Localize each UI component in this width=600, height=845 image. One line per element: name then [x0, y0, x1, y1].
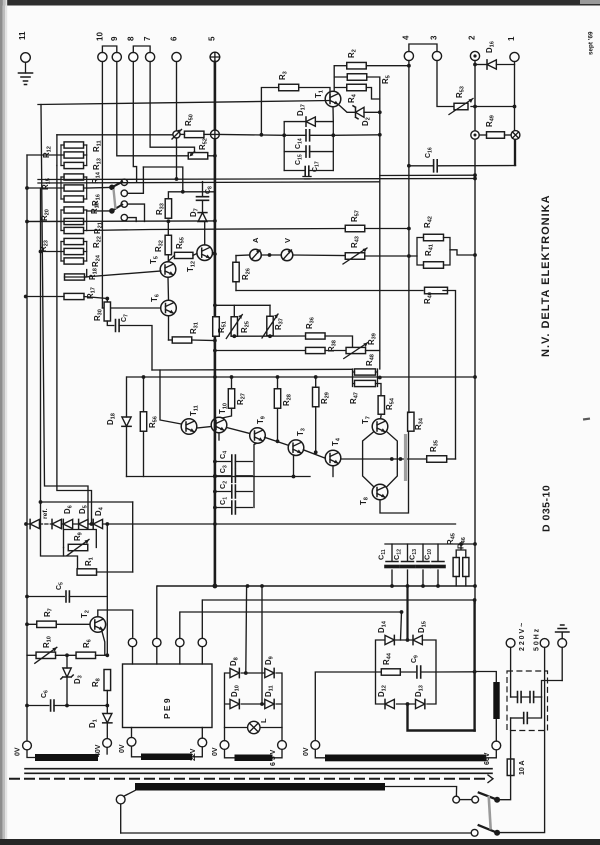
wire terminal 4 drop — [408, 61, 410, 413]
meter A — [250, 249, 262, 261]
wire D16 right — [496, 64, 514, 66]
node C2-bus — [213, 490, 217, 494]
wire chassis line 2 — [25, 772, 492, 774]
wire T5-T6 link — [167, 277, 170, 300]
wire R25 arrow — [226, 315, 242, 339]
resistor R45 — [453, 558, 459, 577]
wire PE9 risers — [157, 586, 203, 638]
svg-text:L: L — [259, 718, 268, 723]
svg-text:10: 10 — [95, 32, 104, 41]
node y476-bus — [213, 475, 217, 479]
wire PE9 terminal stub x156.8 — [156, 647, 158, 664]
node tap4-busB — [39, 250, 43, 254]
wire R10-D3 — [56, 654, 77, 656]
wire T7/T8 loop — [363, 432, 398, 488]
resistor R33 — [165, 199, 171, 219]
wire mains E drop — [561, 647, 563, 680]
node b1r2-y586 — [260, 584, 264, 588]
wire terminal 9 drop — [117, 62, 189, 156]
wire x391 col — [401, 612, 402, 640]
ground (terminal 11) — [19, 73, 33, 85]
wire R36 right — [325, 336, 353, 351]
wire chain links — [61, 523, 93, 525]
resistor R11 — [64, 152, 84, 158]
wire C14 rail — [284, 134, 333, 136]
wire R12 leads — [61, 144, 87, 146]
transformer winding 66V (bar) — [325, 755, 486, 762]
node R28-y377 — [276, 375, 280, 379]
diode D5 — [79, 519, 88, 528]
node bus-T12 — [213, 252, 217, 256]
resistor R54 — [378, 396, 384, 415]
node R30 top — [105, 297, 109, 301]
wire R41 box to t2bus — [450, 250, 475, 255]
resistor R29 — [313, 387, 319, 407]
wire loop mid rail — [363, 458, 427, 460]
wire tap group3 — [27, 221, 61, 223]
wire R32-R55 — [168, 255, 174, 261]
wire 66V to vbar — [495, 719, 497, 741]
svg-text:1: 1 — [507, 36, 516, 41]
wire R2-R5-R4 stubs — [334, 65, 347, 67]
svg-text:sept ’69: sept ’69 — [588, 31, 595, 55]
svg-text:66V: 66V — [484, 752, 491, 765]
fuse 10A — [507, 759, 514, 776]
node R27-y377 — [230, 375, 234, 379]
wire R43 arrow — [343, 248, 367, 264]
wire left bus B — [41, 188, 64, 556]
wire chassis line 1 — [25, 768, 492, 770]
wire bridge1 riser 2 — [261, 586, 263, 704]
wire 0V2 to bar — [132, 746, 142, 757]
resistor R27 — [228, 389, 234, 409]
node R48-R5line — [378, 376, 382, 380]
wire R9 arrow — [67, 540, 89, 556]
wire x475 thick — [473, 600, 475, 731]
resistor R49 — [487, 132, 505, 139]
node R17-busA — [24, 295, 28, 299]
mains terminal A — [506, 639, 515, 648]
node R45-y544 — [459, 542, 463, 546]
wire R25 top — [233, 305, 235, 316]
wire T2 emitter — [102, 631, 105, 656]
wire C13 column — [422, 544, 424, 586]
switch contact 1 — [121, 179, 127, 185]
capacitor C7 — [116, 320, 120, 332]
node R41-t2 — [473, 253, 477, 257]
wire PE9 gnd stub — [131, 728, 133, 738]
wire C10 column — [437, 544, 439, 586]
resistor R21 — [64, 227, 84, 233]
node ref junction left — [471, 131, 479, 139]
wire screen line (dashed) — [10, 778, 488, 780]
wire mains cap rail — [511, 696, 518, 698]
node bus-y305 — [213, 303, 217, 307]
node wiper R50 — [173, 131, 180, 138]
wire T6 emitter — [168, 316, 170, 340]
node R43-t4 — [407, 254, 411, 258]
wire 66V to bar — [486, 750, 496, 758]
wire 63V to bar — [273, 749, 283, 757]
wire R28 top — [277, 377, 279, 389]
capacitor C15 — [306, 146, 310, 157]
wire R17 rail — [26, 296, 64, 298]
wire terminal 3 drop — [437, 61, 455, 107]
switch S2b — [494, 830, 500, 836]
PE9 top terminal x179.8 — [176, 638, 184, 646]
capacitor C16 — [434, 160, 438, 172]
svg-text:N.V. DELTA ELEKTRONIKA: N.V. DELTA ELEKTRONIKA — [540, 194, 552, 357]
wire bridge2 rail left — [315, 672, 375, 741]
resistor R23 — [64, 238, 84, 244]
wire R54-T7 — [380, 414, 383, 419]
svg-text:6: 6 — [170, 36, 179, 41]
wire R13 leads — [61, 165, 87, 167]
switch contact 3 — [121, 201, 127, 207]
wire T11-T10 link — [197, 427, 211, 429]
wire C11 column — [391, 544, 393, 586]
wire R31 right — [192, 339, 215, 342]
resistor R20 — [64, 207, 84, 213]
diode D16 — [487, 60, 496, 69]
wire C4 row — [215, 461, 252, 463]
wire C12 column — [407, 544, 409, 586]
diode D17 — [306, 117, 315, 126]
terminal 4 — [404, 51, 413, 60]
wire rail y305 — [215, 304, 270, 306]
resistor R5 — [347, 74, 367, 81]
wire R11 leads — [61, 154, 87, 156]
svg-text:0V: 0V — [119, 744, 126, 753]
wire R41/R42 bracket — [417, 238, 450, 266]
diode D7 — [198, 213, 207, 222]
wire link 10-9 — [102, 46, 116, 52]
diode D9 — [265, 668, 274, 677]
wire bottom left terminal col — [120, 804, 122, 833]
wire R6 right — [96, 654, 108, 656]
wire long rail y524 — [103, 523, 456, 525]
node R25-bot — [232, 334, 236, 338]
wire rail C14 to R5-line — [333, 134, 380, 137]
node y705-x107 — [105, 704, 109, 708]
resistor R56 — [140, 412, 146, 432]
wire R53 arrow — [449, 99, 473, 115]
node y524-busA — [24, 522, 28, 526]
wire tap group2 — [27, 187, 61, 189]
wire T8 bottom loop — [380, 431, 409, 513]
switch contact S2b — [471, 829, 478, 836]
node bridge1-top — [244, 671, 248, 675]
resistor R40 — [425, 287, 448, 294]
terminal 2 — [470, 51, 479, 60]
diode D8 — [230, 668, 239, 677]
node x475-y672 — [473, 670, 477, 674]
transistor T4 — [325, 450, 341, 466]
wire rail y612 — [181, 611, 402, 613]
wire R3 right — [299, 88, 330, 100]
wire R2 right — [366, 65, 409, 67]
PE9 top terminal x202.3 — [198, 638, 206, 646]
wire R21 leads — [61, 230, 87, 232]
wire R49 left — [479, 134, 486, 136]
resistor R30 — [104, 302, 110, 321]
wire R26 bottom — [235, 282, 237, 291]
wire rail y544 — [385, 543, 475, 545]
wire PE9 terminal stub x202.3 — [201, 647, 203, 664]
wire x132 col — [132, 502, 134, 572]
wire R32 top — [167, 221, 169, 235]
wire tap group1 — [27, 154, 61, 156]
wire R25 bot stub — [233, 335, 235, 337]
wire R56 col — [143, 377, 145, 412]
switch link S2 — [489, 796, 491, 830]
wire R18 to T5 — [85, 271, 161, 277]
wire R2/R5/R4 left rail — [333, 66, 335, 92]
wire S2a contacts link — [460, 799, 472, 801]
wire 0V3 to bar — [225, 749, 235, 757]
node tap2-busA — [25, 186, 29, 190]
node T3-y476 — [292, 475, 296, 479]
node loop-d2 — [399, 457, 403, 461]
svg-text:10 A: 10 A — [519, 760, 526, 775]
wire bottom terminal to bar — [124, 791, 135, 797]
wire T10 em — [218, 433, 220, 440]
node loop-d1 — [390, 457, 394, 461]
wire R39 arrow — [344, 343, 368, 359]
wire R43 right — [365, 255, 417, 257]
terminal 22V — [198, 738, 207, 747]
node R29-T3T4 — [314, 450, 318, 454]
svg-text:ref.: ref. — [42, 508, 49, 519]
wire R31 left — [169, 339, 173, 341]
wire meter rail — [236, 254, 250, 257]
terminal 8 — [129, 52, 138, 61]
node bridge2-top — [406, 638, 410, 642]
svg-text:5 0 H z: 5 0 H z — [534, 628, 541, 651]
svg-text:3: 3 — [430, 35, 439, 40]
lamp L — [248, 721, 260, 733]
resistor R50 — [184, 131, 204, 138]
switch contact 4 — [121, 214, 127, 220]
terminal 9 — [112, 52, 121, 61]
transistor T9 — [250, 428, 266, 444]
terminal 0V-1 — [23, 741, 32, 750]
wire R28 to T9 — [277, 408, 279, 441]
mains terminal B — [540, 639, 549, 648]
resistor R55 — [174, 252, 193, 258]
wire rail y600 — [203, 599, 475, 601]
switch link — [114, 189, 116, 209]
wire R53 right — [471, 106, 515, 108]
wire contact4 lead — [128, 218, 137, 222]
node y705-D3 — [65, 704, 69, 708]
wire rail y336 — [234, 335, 305, 337]
resistor R38 — [306, 347, 326, 353]
capacitor C8 — [197, 197, 209, 201]
diode D15 — [413, 635, 422, 644]
resistor R26 — [233, 262, 239, 282]
PE9 top terminal x156.8 — [153, 638, 161, 646]
resistor R9 — [68, 544, 88, 550]
wire C15 rail — [284, 151, 333, 153]
resistor R46 — [463, 558, 469, 577]
switch contact S2a-2 — [453, 796, 460, 803]
node y624-busA — [25, 622, 29, 626]
wire R48 bracket — [353, 369, 378, 387]
node y524-D4 — [90, 522, 94, 526]
diode D10 — [230, 699, 239, 708]
node C14-left — [282, 133, 286, 137]
resistor R48b — [355, 380, 376, 386]
capacitor C3 — [232, 469, 236, 482]
resistor R18 — [65, 274, 85, 280]
diode Dx — [52, 519, 61, 528]
wire R1 right — [97, 571, 133, 573]
wire rail y624 — [27, 623, 90, 625]
node y596-x27 — [25, 595, 29, 599]
wire terminal 5 bus — [214, 62, 217, 586]
node C10-y586 — [436, 584, 440, 588]
node R53-t2 — [473, 105, 477, 109]
switch pole S1b — [109, 208, 115, 214]
resistor R16 — [64, 196, 84, 202]
resistor R19 — [64, 218, 84, 224]
wire rail y350 — [215, 350, 306, 352]
wire terminal 10 drop — [101, 62, 103, 308]
wire D3 col b — [66, 677, 68, 706]
wire rail y705b — [54, 705, 107, 707]
node bus junction at R50 — [211, 130, 220, 139]
diode D13 — [416, 699, 425, 708]
wire terminal 8 drop — [133, 62, 136, 183]
resistor R3 — [279, 84, 299, 91]
resistor R48a — [355, 369, 376, 375]
resistor R52 — [188, 153, 208, 160]
wire fuse to switch — [500, 776, 511, 800]
wire R27 top — [231, 377, 233, 389]
wire C1 row — [215, 507, 252, 509]
wire rail y596b — [69, 596, 107, 598]
wire bridge1 right drop — [281, 728, 283, 741]
wire R34 top — [409, 411, 411, 413]
switch contact 2 — [121, 190, 127, 196]
wire rail y290 — [236, 290, 423, 292]
node R56-y377 — [142, 375, 146, 379]
svg-text:11: 11 — [18, 31, 27, 40]
transistor T3 — [288, 440, 304, 456]
node C1-bus — [213, 506, 217, 510]
terminal 0V-3 — [220, 741, 229, 750]
transistor T7 — [372, 419, 388, 435]
wire rail y705 — [27, 705, 49, 707]
diode D1 — [103, 714, 112, 723]
resistor R22 — [64, 248, 84, 254]
wire T4 out — [341, 458, 363, 460]
transformer winding 40V (bar) — [35, 754, 98, 761]
transistor T10 — [211, 417, 227, 433]
node y502-busB — [39, 500, 43, 504]
wire mains cap rail up — [542, 681, 563, 698]
wire PE9 terminal stub x179.8 — [179, 647, 181, 664]
wire ladder inner box top — [57, 134, 177, 136]
node bus-R31 — [213, 339, 217, 343]
capacitor C9 — [417, 666, 421, 678]
resistor R24 — [64, 258, 84, 264]
resistor R31 — [172, 337, 192, 343]
wire box top edges — [284, 121, 333, 123]
node y655-D3 — [65, 653, 69, 657]
resistor R43 — [345, 253, 365, 260]
wire R39 right — [366, 350, 380, 352]
wire C8 top stub — [202, 182, 204, 197]
wire R48 to R54 — [378, 384, 382, 397]
node D7-bus — [213, 219, 217, 223]
node R2-t4 — [407, 64, 411, 68]
wire R57 rail — [87, 229, 346, 231]
IC PE 9 (box) — [123, 664, 213, 728]
resistor R12 — [64, 142, 84, 148]
resistor R4 — [347, 84, 367, 91]
node C14-right — [331, 133, 335, 137]
resistor R51 — [213, 317, 220, 337]
wire R10 arrow — [35, 647, 57, 663]
resistor R39 — [346, 347, 366, 353]
wire R29 to T3 — [315, 407, 317, 453]
wire rail y476 — [127, 476, 311, 478]
node t2-D16 — [473, 63, 477, 67]
transistor T5 — [160, 262, 176, 278]
wire T10-T9 — [227, 428, 250, 434]
capacitor C10 — [432, 561, 444, 563]
wire C16 rail b — [437, 165, 515, 167]
wire R17 to R30 — [84, 297, 107, 303]
transistor T1 — [325, 91, 341, 107]
diode D14 — [385, 635, 394, 644]
resistor R53 — [454, 103, 468, 110]
wire R22 leads — [61, 251, 87, 253]
capacitor C2 — [232, 485, 236, 498]
node y586-d2 — [246, 584, 250, 588]
wire ladder outer box top — [38, 101, 330, 105]
wire C3 row — [215, 475, 252, 477]
svg-text:0V: 0V — [15, 747, 22, 756]
wire R24 leads — [61, 260, 87, 262]
node y586-x475 — [473, 584, 477, 588]
wire R55-T12 — [193, 254, 197, 256]
svg-text:5: 5 — [208, 36, 217, 41]
wire bottom long wire — [121, 832, 472, 834]
wire margin speck — [583, 417, 590, 420]
wire double rail lower — [38, 182, 380, 183]
diode D18 — [122, 417, 131, 426]
resistor R57 — [345, 225, 365, 232]
wire vbar top — [475, 672, 497, 683]
wire long rail y222 — [27, 220, 215, 223]
wire 0V4 to bar — [315, 749, 325, 757]
wire rail y175 — [380, 174, 475, 176]
wire terminal 6 drop — [176, 62, 178, 131]
node C13-y586 — [421, 584, 425, 588]
wire R56 col b — [143, 431, 145, 476]
wire bridge2 rail right — [436, 671, 475, 673]
resistor R7 — [37, 621, 57, 627]
wire C16 rail — [409, 165, 434, 167]
transformer primary winding (vertical bar) — [493, 682, 499, 719]
node R3-rail — [260, 133, 264, 137]
wire R57 right — [365, 228, 409, 230]
terminal 0V-4 — [311, 741, 320, 750]
wire R37 arrow — [262, 314, 278, 338]
